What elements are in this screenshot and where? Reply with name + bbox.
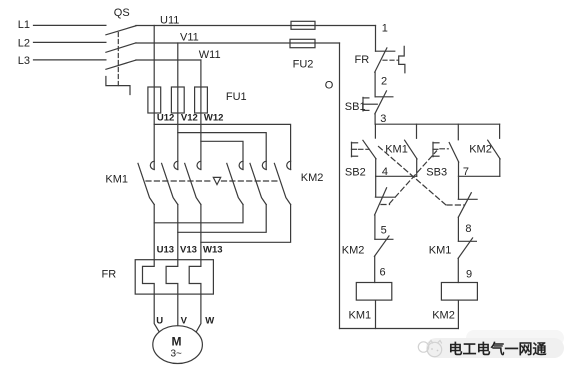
svg-text:V13: V13 xyxy=(180,244,197,255)
svg-text:O: O xyxy=(325,80,334,92)
svg-text:V: V xyxy=(181,316,188,327)
svg-text:KM1: KM1 xyxy=(105,173,128,185)
svg-text:FU1: FU1 xyxy=(226,91,247,103)
svg-text:SB2: SB2 xyxy=(345,167,366,179)
svg-text:W12: W12 xyxy=(204,113,224,124)
svg-text:1: 1 xyxy=(382,23,388,35)
svg-text:L3: L3 xyxy=(18,55,30,67)
svg-text:FR: FR xyxy=(102,269,117,281)
svg-text:KM2: KM2 xyxy=(432,310,455,322)
svg-text:W: W xyxy=(205,316,214,327)
svg-text:U13: U13 xyxy=(157,244,174,255)
svg-text:V11: V11 xyxy=(180,32,199,44)
svg-text:SB3: SB3 xyxy=(426,167,447,179)
svg-text:U: U xyxy=(156,316,163,327)
svg-text:QS: QS xyxy=(114,7,130,19)
svg-text:SB1: SB1 xyxy=(345,101,366,113)
svg-text:KM2: KM2 xyxy=(469,144,492,156)
svg-text:KM2: KM2 xyxy=(342,245,365,257)
svg-text:6: 6 xyxy=(380,267,386,279)
svg-text:M: M xyxy=(172,335,182,349)
svg-text:V12: V12 xyxy=(181,113,198,124)
svg-text:L2: L2 xyxy=(18,38,30,50)
svg-text:KM1: KM1 xyxy=(429,245,452,257)
svg-text:KM1: KM1 xyxy=(385,144,408,156)
svg-text:电工电气一网通: 电工电气一网通 xyxy=(449,341,547,357)
svg-text:9: 9 xyxy=(466,269,472,281)
svg-text:L1: L1 xyxy=(18,19,30,31)
svg-text:7: 7 xyxy=(463,166,469,178)
svg-text:W11: W11 xyxy=(199,49,221,61)
svg-text:5: 5 xyxy=(381,224,387,236)
svg-text:KM1: KM1 xyxy=(349,310,372,322)
svg-text:8: 8 xyxy=(465,223,471,235)
svg-text:W13: W13 xyxy=(203,244,223,255)
svg-text:U12: U12 xyxy=(157,113,174,124)
svg-text:4: 4 xyxy=(382,166,388,178)
svg-text:3: 3 xyxy=(380,113,386,125)
svg-text:3~: 3~ xyxy=(171,349,183,360)
svg-text:FU2: FU2 xyxy=(293,59,314,71)
svg-text:2: 2 xyxy=(381,75,387,87)
svg-text:KM2: KM2 xyxy=(301,172,324,184)
svg-text:FR: FR xyxy=(355,54,370,66)
svg-text:U11: U11 xyxy=(160,14,179,26)
